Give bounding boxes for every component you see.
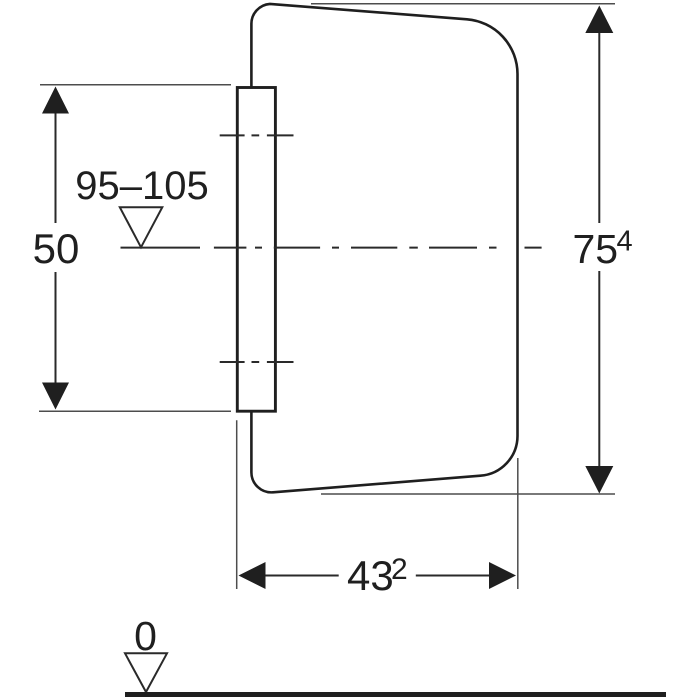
svg-text:50: 50 [33, 225, 80, 272]
dimension 50: upper line segment [55, 110, 57, 223]
svg-text:43: 43 [347, 552, 394, 599]
dimension 43_2: left extension line [236, 420, 238, 589]
dimension 50: lower line segment [55, 272, 57, 385]
dimension 75_4: upper line segment [598, 28, 600, 223]
dimension 43_2: left line segment [265, 575, 339, 577]
floor datum triangle [125, 653, 167, 692]
svg-text:4: 4 [617, 226, 633, 258]
svg-text:0: 0 [134, 613, 157, 659]
dimension 43_2: right line segment [416, 575, 490, 577]
svg-text:2: 2 [391, 553, 408, 586]
dimension 75_4: bottom extension line [321, 493, 615, 495]
dimension 75_4: up arrow [585, 6, 613, 34]
water level triangle symbol [120, 207, 163, 247]
mounting rail rectangle [237, 88, 275, 412]
floor line [125, 692, 666, 697]
dimension 50: down arrow [42, 383, 69, 410]
svg-text:75: 75 [573, 226, 619, 272]
dimension 50: top extension line [40, 84, 231, 86]
dimension 50: up arrow [42, 87, 69, 114]
dimension 43_2: right arrow [489, 562, 516, 589]
dimension 75_4: down arrow [585, 466, 613, 494]
main horizontal centerline solid start under level triangle [121, 247, 201, 249]
upper fastener centerline [220, 134, 294, 136]
dimension 75_4: lower line segment [598, 271, 600, 470]
lower fastener centerline [220, 361, 294, 363]
dimension 50: bottom extension line [39, 410, 231, 412]
dimension 75_4: top extension line [311, 3, 615, 5]
dimension 43_2: left arrow [239, 562, 266, 589]
cistern body outline [251, 4, 517, 492]
dimension 43_2: right extension line [517, 458, 519, 589]
main horizontal centerline dash-dot [214, 247, 542, 249]
svg-text:95–105: 95–105 [75, 164, 208, 208]
